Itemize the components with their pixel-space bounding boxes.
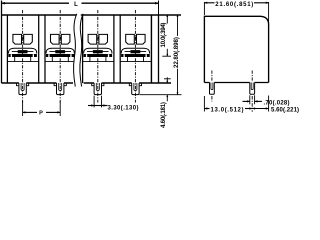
height dim 2 bottom arrow	[177, 69, 179, 95]
pin width dim line	[94, 105, 106, 107]
svg-text:22.80(.898): 22.80(.898)	[173, 37, 180, 68]
break white band	[74, 13, 83, 87]
pin length dim down arrow	[166, 77, 168, 83]
height dim 1 top arrow	[166, 15, 168, 24]
side pin B centerline upper	[251, 71, 253, 83]
pin width dim extension left	[93, 96, 95, 108]
height dim 1 bottom arrow	[166, 49, 168, 56]
depth dim line right	[254, 2, 269, 4]
side body outline	[204, 16, 268, 82]
body top edge right segment with dim extension	[81, 14, 181, 16]
pin thickness left arrow	[243, 100, 250, 102]
svg-text:13.0(.512): 13.0(.512)	[211, 108, 244, 114]
side pin A	[210, 83, 215, 95]
svg-text:3.30(.130): 3.30(.130)	[108, 106, 139, 112]
dimension L line right part	[82, 2, 159, 4]
side pin A centerline lower	[211, 96, 213, 102]
break line left	[74, 14, 77, 87]
side pin A centerline upper	[211, 71, 213, 83]
left outer wall + L extension	[1, 1, 3, 84]
bottom dim extension right	[268, 96, 270, 112]
svg-text:21.60(.851): 21.60(.851)	[215, 2, 253, 8]
pin thickness extension line left	[249, 95, 251, 104]
pin thickness extension line right	[254, 95, 256, 104]
side bottom edge	[204, 82, 268, 84]
dim 13.0 line left arrow	[204, 108, 209, 110]
dimension P line left	[23, 111, 37, 113]
svg-text:4.60(.181): 4.60(.181)	[160, 102, 167, 128]
svg-text:10.0(.394): 10.0(.394)	[160, 23, 167, 48]
depth dim line left	[204, 2, 214, 4]
dimension P extension line 1	[22, 101, 24, 116]
svg-text:P: P	[39, 111, 43, 117]
side pin B	[250, 83, 255, 95]
side pin B centerline lower	[251, 96, 253, 112]
pin bottom extension line	[140, 94, 182, 96]
dimension L line left part	[2, 2, 70, 4]
dimension P extension line 2	[59, 101, 61, 116]
body top edge left segment	[2, 14, 77, 16]
svg-text:.70(.028): .70(.028)	[264, 101, 290, 107]
pin width dim left arrow	[88, 105, 94, 107]
terminal cell 2	[45, 10, 76, 103]
terminal cell 1	[7, 10, 38, 103]
dimension P line right	[46, 111, 60, 113]
right outer wall	[158, 15, 160, 84]
depth dim extension left	[203, 2, 205, 15]
terminal cell 4	[120, 10, 151, 103]
right end inner wall	[150, 15, 152, 84]
pin width dim right arrow	[102, 105, 108, 107]
L extension right	[158, 1, 160, 15]
pin length dim up arrow	[166, 95, 168, 102]
svg-text:L: L	[74, 2, 78, 8]
break line right	[80, 14, 83, 87]
terminal cell 3	[83, 10, 114, 103]
pin thickness right arrow	[255, 100, 262, 102]
svg-text:5.60(.221): 5.60(.221)	[271, 108, 299, 114]
dim 13.0 line right arrow	[245, 108, 252, 110]
height dim 1 lower tick	[162, 55, 171, 57]
bottom dim extension left	[203, 96, 205, 112]
dim 5.60 line	[252, 108, 268, 110]
depth dim extension right	[268, 2, 270, 27]
pin width dim extension right	[101, 96, 103, 108]
body bottom edge segments	[2, 82, 172, 84]
pin length dim tail tick	[164, 78, 171, 80]
height dim 2 top arrow	[177, 15, 179, 36]
